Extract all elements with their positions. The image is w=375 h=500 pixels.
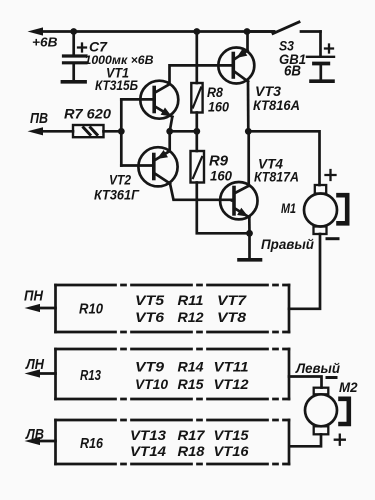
resistor R7 (41, 125, 121, 137)
label VT2 type (94, 187, 140, 203)
label GB1 (279, 52, 306, 67)
battery GB1 (307, 32, 334, 82)
label R17 (178, 427, 206, 443)
svg-text:R11: R11 (178, 292, 204, 308)
transistor VT2 (121, 131, 232, 200)
resistor R9 (191, 131, 250, 233)
label Levyi (295, 360, 340, 376)
label R12 (178, 309, 204, 325)
svg-text:VT11: VT11 (214, 359, 249, 375)
svg-text:КТ315Б: КТ315Б (95, 78, 138, 93)
wire collectors node to M1 (248, 131, 319, 185)
label VT1 (106, 66, 129, 81)
svg-text:КТ816А: КТ816А (253, 97, 300, 113)
label R7 value (64, 105, 111, 121)
svg-text:R10: R10 (79, 302, 103, 318)
svg-text:R17: R17 (178, 427, 206, 443)
motor M1 (304, 170, 338, 239)
svg-text:КТ361Г: КТ361Г (94, 187, 140, 203)
capacitor C7 (62, 32, 86, 82)
svg-text:VT8: VT8 (217, 309, 246, 325)
svg-text:VT2: VT2 (109, 172, 131, 188)
svg-text:+6В: +6В (32, 34, 58, 49)
svg-text:Левый: Левый (295, 360, 340, 376)
transistor VT1 (121, 81, 178, 132)
svg-text:ЛВ: ЛВ (25, 427, 44, 443)
label VT4 type (254, 169, 299, 185)
svg-text:VT12: VT12 (214, 376, 249, 392)
label PV (30, 111, 48, 127)
arrow PV (ПВ output) (28, 127, 44, 135)
svg-text:VT15: VT15 (214, 427, 249, 443)
arrow VT3 emitter (PNP into base) (234, 49, 247, 62)
label VT4 (258, 156, 283, 172)
svg-text:R12: R12 (178, 309, 204, 325)
wire rail to R8 (195, 32, 198, 84)
resistor R8 (191, 83, 202, 131)
node R7-bases junction (118, 128, 125, 135)
label VT8 (217, 309, 246, 325)
transistor VT3 (218, 32, 254, 132)
wire block LN to M2 (289, 377, 322, 388)
label R14 (178, 359, 204, 375)
arrow PN output (25, 304, 41, 312)
mechanical coupling bracket M2 (341, 399, 349, 424)
svg-text:VT16: VT16 (214, 443, 249, 459)
svg-text:М2: М2 (339, 379, 358, 395)
svg-text:R7 620: R7 620 (64, 105, 111, 121)
label +6V (32, 34, 58, 49)
label VT5 (135, 292, 164, 308)
svg-text:VT5: VT5 (135, 292, 164, 308)
label R9 value (210, 168, 232, 184)
svg-text:160: 160 (208, 99, 229, 115)
svg-text:R16: R16 (80, 436, 104, 452)
label M2 (339, 379, 358, 395)
label S3 (279, 38, 294, 54)
svg-text:КТ817А: КТ817А (254, 169, 299, 185)
svg-text:VT6: VT6 (135, 309, 164, 325)
label VT14 (130, 443, 166, 459)
motor M2 (305, 378, 345, 445)
svg-text:R13: R13 (80, 368, 101, 384)
arrow VT1 emitter (NPN out) (161, 107, 174, 120)
block PN (R10 VT5-VT8) (41, 285, 289, 332)
label VT16 (214, 443, 249, 459)
svg-text:Правый: Правый (261, 237, 315, 252)
label R9 (209, 154, 228, 170)
label R16 (80, 436, 104, 452)
node R8-R9 junction (193, 128, 200, 135)
node rail-R8 junction (193, 28, 200, 35)
node rail-VT3 junction (244, 28, 251, 35)
label VT2 (109, 172, 131, 188)
svg-text:ПВ: ПВ (30, 111, 48, 127)
wire base line VT1-VT2 (120, 99, 123, 165)
node emitters junction (166, 128, 173, 135)
svg-text:R18: R18 (178, 443, 205, 459)
wire M1 minus to block PN (289, 234, 320, 309)
wire emitters to R8/R9 node (170, 130, 197, 133)
arrow VT4 emitter (NPN out) (237, 208, 250, 221)
wire VT1 collector to VT3 base (170, 65, 233, 83)
svg-text:VT9: VT9 (135, 359, 164, 375)
label R11 (178, 292, 204, 308)
ground (chassis) (239, 233, 261, 259)
switch S3 (247, 22, 321, 34)
label VT3 type (253, 97, 300, 113)
label M1 (281, 201, 296, 216)
block LN (R13 VT9-VT12) (41, 349, 289, 399)
label VT3 (255, 83, 281, 99)
label R8 value (208, 99, 229, 115)
mechanical coupling bracket M1 (339, 195, 348, 223)
label VT15 (214, 427, 249, 443)
label C7 value (85, 53, 154, 67)
label R15 (178, 376, 204, 392)
label LN (25, 357, 44, 373)
svg-text:VT10: VT10 (135, 376, 168, 392)
svg-text:VT13: VT13 (130, 427, 166, 443)
svg-text:VT14: VT14 (130, 443, 166, 459)
node VT3/VT4 collectors junction (245, 128, 252, 135)
label VT10 (135, 376, 168, 392)
arrow LN output (25, 369, 41, 377)
label VT12 (214, 376, 249, 392)
label R13 (80, 368, 101, 384)
svg-text:R15: R15 (178, 376, 204, 392)
svg-text:VT7: VT7 (217, 292, 247, 308)
svg-text:R14: R14 (178, 359, 204, 375)
svg-text:М1: М1 (281, 201, 296, 216)
arrow +6V (left tip of rail) (28, 27, 44, 35)
node rail-C7 junction (70, 28, 77, 35)
label VT6 (135, 309, 164, 325)
arrow LV output (25, 437, 41, 445)
label VT1 type (95, 78, 138, 93)
label VT13 (130, 427, 166, 443)
label LV (25, 427, 44, 443)
wire M2 plus to block LV (290, 434, 321, 446)
node VT4 emitter / R9 ground junction (246, 230, 253, 237)
block LV (R16 VT13-VT16) (41, 420, 289, 464)
label R10 (79, 302, 103, 318)
wire top +6V rail (41, 30, 274, 33)
label R8 (207, 84, 223, 100)
label GB1 6V (284, 64, 301, 80)
label PN (24, 289, 43, 305)
label VT7 (217, 292, 247, 308)
svg-text:ПН: ПН (24, 289, 43, 305)
svg-text:160: 160 (210, 168, 232, 184)
label VT9 (135, 359, 164, 375)
label VT11 (214, 359, 249, 375)
transistor VT4 (220, 131, 257, 233)
label M1 Pravyi (261, 237, 315, 252)
svg-text:6В: 6В (284, 64, 301, 80)
label C7 (89, 40, 109, 55)
svg-text:ЛН: ЛН (25, 357, 44, 373)
arrow VT2 emitter (PNP into base) (155, 150, 168, 163)
label R18 (178, 443, 205, 459)
